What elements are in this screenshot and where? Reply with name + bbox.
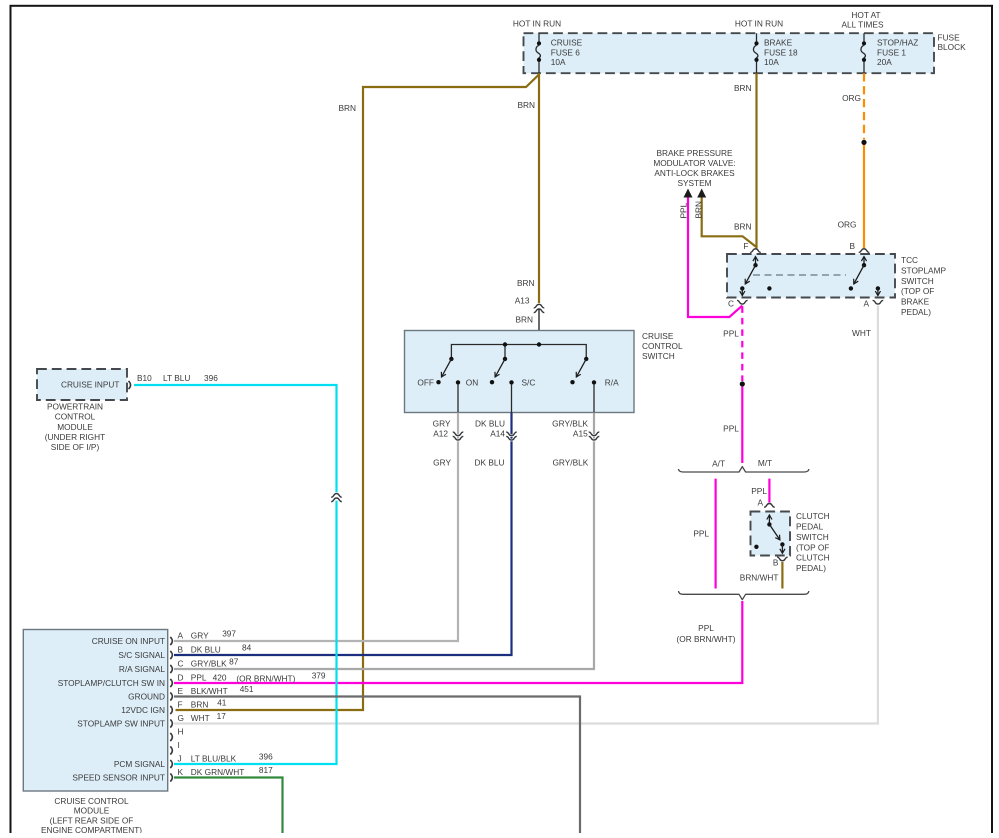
wire PPL (OR BRN/WHT) from brace to module pin D	[174, 601, 742, 683]
svg-text:BRN: BRN	[517, 278, 535, 288]
svg-text:ENGINE COMPARTMENT): ENGINE COMPARTMENT)	[41, 825, 142, 833]
inline connector A12	[433, 429, 463, 440]
wire BRN (black segment) from A13 into cruise control switch	[538, 309, 540, 345]
wire LT BLU from PCM cruise input to module pin J	[134, 385, 337, 764]
wire stub ON contact to box edge	[457, 384, 459, 413]
switch B (arrow stub, pivot, blade)	[849, 257, 867, 291]
svg-text:ALL TIMES: ALL TIMES	[842, 19, 884, 29]
pin B connector (cruise control module)	[118, 645, 183, 661]
svg-text:817: 817	[259, 765, 273, 775]
svg-text:CLUTCH: CLUTCH	[796, 553, 830, 563]
wire BRN fuse18 to TCC stoplamp switch pin F	[755, 73, 757, 248]
svg-text:84: 84	[242, 643, 252, 653]
cruise control switch (box)	[405, 331, 635, 413]
svg-text:BRAKE: BRAKE	[764, 38, 793, 48]
svg-text:A13: A13	[515, 296, 530, 306]
pin B10 connector (PCM)	[129, 381, 131, 389]
pin F connector (TCC)	[743, 241, 760, 252]
junction dot (bus at switch input)	[537, 342, 541, 346]
wire PPL M/T branch to clutch pedal switch pin A	[768, 479, 770, 503]
svg-text:K: K	[178, 767, 184, 777]
svg-text:S/C: S/C	[522, 377, 536, 387]
svg-text:87: 87	[229, 657, 239, 667]
svg-text:(LEFT REAR SIDE OF: (LEFT REAR SIDE OF	[50, 815, 134, 825]
svg-text:HOT IN RUN: HOT IN RUN	[735, 19, 783, 29]
svg-text:PEDAL): PEDAL)	[796, 563, 826, 573]
svg-text:B: B	[773, 558, 779, 568]
svg-text:A12: A12	[433, 429, 448, 439]
label POWERTRAIN CONTROL MODULE (UNDER RIGHT SIDE OF I/P)	[45, 402, 105, 452]
svg-text:SWITCH: SWITCH	[796, 532, 829, 542]
inline connector A14	[490, 429, 517, 440]
svg-text:MODULE: MODULE	[57, 422, 93, 432]
svg-text:20A: 20A	[877, 57, 892, 67]
pin B connector (clutch pedal switch)	[773, 557, 788, 567]
svg-text:STOPLAMP/CLUTCH SW IN: STOPLAMP/CLUTCH SW IN	[58, 678, 165, 688]
svg-text:SPEED SENSOR INPUT: SPEED SENSOR INPUT	[72, 773, 165, 783]
svg-text:379: 379	[312, 670, 326, 680]
wire BRN fuse6 branch to module pin F	[176, 75, 540, 711]
svg-text:A: A	[863, 299, 869, 309]
pin B connector (TCC)	[849, 241, 869, 252]
svg-text:STOP/HAZ: STOP/HAZ	[877, 38, 918, 48]
wire PPL solid to A/T-M/T brace	[741, 387, 743, 463]
svg-text:DK GRN/WHT: DK GRN/WHT	[191, 767, 244, 777]
pin H connector (cruise control module)	[170, 727, 183, 741]
fuse block (box)	[524, 33, 935, 73]
switch A-B (arrow stub, pivot, blade)	[767, 515, 784, 553]
svg-text:GRY/BLK: GRY/BLK	[552, 457, 588, 467]
svg-text:396: 396	[204, 373, 218, 383]
svg-text:MODULE: MODULE	[74, 806, 110, 816]
svg-text:BRN: BRN	[338, 103, 356, 113]
wire labels pin J: LT BLU/BLK 396	[191, 752, 273, 764]
svg-text:BLK/WHT: BLK/WHT	[191, 686, 228, 696]
pin C connector (TCC)	[728, 299, 748, 309]
svg-text:BRN/WHT: BRN/WHT	[740, 573, 779, 583]
cruise control module (box)	[23, 630, 167, 792]
svg-text:A15: A15	[573, 429, 588, 439]
pin D connector (cruise control module)	[58, 673, 184, 689]
svg-text:BRN: BRN	[734, 83, 752, 93]
svg-text:PPL: PPL	[751, 486, 767, 496]
svg-text:PPL: PPL	[723, 423, 739, 433]
svg-text:WHT: WHT	[191, 713, 210, 723]
brace (A/T M/T merge)	[679, 591, 809, 600]
svg-text:DK BLU: DK BLU	[191, 645, 221, 655]
svg-text:420: 420	[213, 673, 227, 683]
pin A connector (TCC)	[863, 299, 883, 309]
svg-text:BLOCK: BLOCK	[938, 42, 967, 52]
wire labels pin C: GRY/BLK 87	[191, 657, 239, 669]
wire labels pin K: DK GRN/WHT 817	[191, 765, 273, 777]
svg-text:10A: 10A	[764, 57, 779, 67]
contact dot (R/A blade rest)	[570, 380, 574, 384]
svg-text:ORG: ORG	[838, 220, 857, 230]
svg-text:CONTROL: CONTROL	[55, 412, 96, 422]
svg-text:(OR BRN/WHT): (OR BRN/WHT)	[236, 673, 295, 683]
arrowhead PPL to modulator valve	[684, 189, 693, 198]
svg-text:ON: ON	[466, 377, 478, 387]
wire WHT from TCC pin A to module pin G	[174, 306, 878, 724]
svg-text:OFF: OFF	[417, 377, 434, 387]
svg-text:MODULATOR VALVE:: MODULATOR VALVE:	[653, 158, 735, 168]
svg-text:CRUISE ON INPUT: CRUISE ON INPUT	[92, 636, 165, 646]
switch F-C (arrow stub, pivot, blade)	[740, 257, 758, 296]
svg-text:CRUISE: CRUISE	[642, 331, 674, 341]
TCC stoplamp switch (box)	[727, 254, 895, 298]
wire labels pin G: WHT 17	[191, 711, 226, 723]
svg-text:F: F	[178, 700, 183, 710]
wire labels pin B: DK BLU 84	[191, 643, 252, 655]
contact A with arrow stub (TCC)	[876, 286, 880, 295]
fuse STOP/HAZ FUSE 1 20A	[861, 33, 918, 73]
wire GRY from ON contact to module pin A	[174, 413, 458, 642]
svg-text:PEDAL): PEDAL)	[901, 307, 931, 317]
svg-text:BRAKE PRESSURE: BRAKE PRESSURE	[656, 148, 733, 158]
svg-text:WHT: WHT	[852, 328, 871, 338]
svg-text:BRN: BRN	[734, 222, 752, 232]
label CRUISE CONTROL MODULE (LEFT REAR SIDE OF ENGINE COMPARTMENT)	[41, 796, 142, 835]
svg-text:(TOP OF: (TOP OF	[796, 542, 829, 552]
pin I connector (cruise control module)	[170, 740, 180, 754]
svg-text:SWITCH: SWITCH	[642, 351, 675, 361]
junction dot on PPL wire	[740, 381, 745, 386]
svg-text:C: C	[728, 299, 734, 309]
inline connector A13	[515, 296, 545, 313]
svg-text:PPL: PPL	[679, 202, 689, 218]
arrowhead BRN to modulator valve	[697, 189, 706, 198]
wire internal bus of cruise control switch	[451, 345, 586, 359]
svg-text:POWERTRAIN: POWERTRAIN	[47, 402, 103, 412]
svg-text:B10: B10	[137, 373, 152, 383]
switch blade OFF/ON (pivot and blade)	[449, 357, 453, 361]
svg-text:M/T: M/T	[758, 458, 772, 468]
wire GRY/BLK from R/A contact to module pin C	[174, 413, 594, 670]
svg-text:J: J	[178, 754, 182, 764]
svg-text:ORG: ORG	[842, 93, 861, 103]
svg-text:GRY: GRY	[433, 457, 451, 467]
brace (A/T M/T split)	[679, 467, 809, 472]
svg-text:PCM SIGNAL: PCM SIGNAL	[114, 759, 166, 769]
svg-text:GRY/BLK: GRY/BLK	[552, 418, 588, 428]
pin A connector (clutch pedal switch)	[757, 498, 774, 508]
svg-text:PPL: PPL	[698, 623, 714, 633]
inline connector on LT BLU wire	[331, 493, 342, 502]
svg-text:E: E	[178, 686, 184, 696]
svg-text:GROUND: GROUND	[128, 692, 165, 702]
contact dot (S/C blade rest)	[490, 380, 494, 384]
clutch pedal switch (box)	[751, 512, 791, 556]
svg-text:SWITCH: SWITCH	[901, 276, 934, 286]
junction dot (bus at middle switch)	[503, 342, 507, 346]
pin G connector (cruise control module)	[77, 713, 184, 729]
svg-text:SYSTEM: SYSTEM	[677, 178, 711, 188]
pin A connector (cruise control module)	[92, 631, 184, 647]
wire DK BLU from S/C contact to module pin B	[174, 413, 512, 656]
svg-text:451: 451	[240, 684, 254, 694]
svg-text:41: 41	[217, 698, 227, 708]
switch blade R/A (pivot and blade)	[584, 357, 588, 361]
svg-text:BRN: BRN	[515, 315, 533, 325]
wire ORG solid to TCC pin B	[863, 145, 865, 249]
svg-text:G: G	[178, 713, 184, 723]
label PPL (OR BRN/WHT)	[677, 623, 736, 644]
pin E connector (cruise control module)	[128, 686, 183, 702]
cruise input box (powertrain control module)	[37, 369, 127, 400]
svg-text:GRY/BLK: GRY/BLK	[191, 659, 227, 669]
svg-text:R/A SIGNAL: R/A SIGNAL	[119, 664, 165, 674]
pin F connector (cruise control module)	[121, 700, 182, 716]
svg-text:A14: A14	[490, 429, 505, 439]
svg-text:B: B	[178, 645, 184, 655]
pin K connector (cruise control module)	[72, 767, 183, 783]
svg-text:LT BLU/BLK: LT BLU/BLK	[191, 754, 237, 764]
fuse CRUISE FUSE 6 10A	[536, 33, 583, 73]
svg-text:BRN: BRN	[517, 100, 535, 110]
svg-text:ANTI-LOCK BRAKES: ANTI-LOCK BRAKES	[654, 168, 735, 178]
contact ON (dot)	[456, 380, 460, 384]
svg-text:CONTROL: CONTROL	[642, 341, 683, 351]
svg-text:BRAKE: BRAKE	[901, 297, 930, 307]
svg-text:PPL: PPL	[191, 673, 207, 683]
svg-text:STOPLAMP SW INPUT: STOPLAMP SW INPUT	[77, 719, 165, 729]
contact R/A (dot)	[592, 380, 596, 384]
contact dot (TCC left spare)	[767, 286, 771, 290]
svg-text:STOPLAMP: STOPLAMP	[901, 265, 946, 275]
svg-text:A: A	[757, 498, 763, 508]
label BRAKE PRESSURE MODULATOR VALVE: ANTI-LOCK BRAKES SYSTEM	[653, 148, 735, 188]
svg-text:PPL: PPL	[723, 328, 739, 338]
svg-text:HOT AT: HOT AT	[851, 10, 880, 20]
svg-text:CRUISE CONTROL: CRUISE CONTROL	[54, 796, 129, 806]
svg-text:S/C SIGNAL: S/C SIGNAL	[118, 650, 165, 660]
svg-text:D: D	[178, 673, 184, 683]
wire E BLK/WHT to ground (down off page)	[174, 697, 580, 838]
svg-text:A: A	[178, 631, 184, 641]
svg-text:(OR BRN/WHT): (OR BRN/WHT)	[677, 634, 736, 644]
wire BRN fuse6 to A13 connector (vertical)	[538, 73, 540, 303]
svg-text:C: C	[178, 659, 184, 669]
svg-text:BRN: BRN	[191, 700, 209, 710]
pin J connector (cruise control module)	[114, 754, 182, 770]
svg-text:I: I	[178, 740, 180, 750]
svg-text:PPL: PPL	[693, 529, 709, 539]
svg-text:CRUISE INPUT: CRUISE INPUT	[61, 379, 120, 389]
svg-text:(UNDER RIGHT: (UNDER RIGHT	[45, 432, 105, 442]
svg-text:LT BLU: LT BLU	[163, 373, 190, 383]
wire labels pin D: PPL 420 (OR BRN/WHT) 379	[191, 670, 326, 683]
svg-text:396: 396	[259, 752, 273, 762]
svg-text:17: 17	[217, 711, 227, 721]
contact OFF (dot)	[436, 380, 440, 384]
svg-text:HOT IN RUN: HOT IN RUN	[513, 19, 561, 29]
wire PPL A/T branch	[714, 479, 716, 589]
fuse BRAKE FUSE 18 10A	[753, 33, 798, 73]
svg-text:GRY: GRY	[191, 631, 209, 641]
switch blade S/C (pivot and blade)	[503, 357, 507, 361]
svg-text:R/A: R/A	[605, 377, 619, 387]
svg-text:12VDC IGN: 12VDC IGN	[121, 705, 165, 715]
wire PPL dashed from TCC pin C	[741, 306, 743, 381]
svg-text:10A: 10A	[551, 57, 566, 67]
svg-text:FUSE: FUSE	[938, 33, 961, 43]
mechanical link (dashed) between TCC switches	[753, 274, 846, 276]
svg-text:SIDE OF I/P): SIDE OF I/P)	[51, 442, 100, 452]
contact S/C (dot)	[509, 380, 513, 384]
svg-text:DK BLU: DK BLU	[475, 457, 505, 467]
svg-text:GRY: GRY	[433, 418, 451, 428]
wire K DK GRN/WHT to speed sensor (down off page)	[174, 778, 283, 838]
wire labels pin E: BLK/WHT 451	[191, 684, 254, 696]
inline connector A15	[573, 429, 599, 440]
svg-text:F: F	[743, 241, 748, 251]
wire stub R/A contact to box edge	[593, 384, 595, 413]
wire PPL to brake pressure modulator valve from TCC pin C	[688, 197, 742, 317]
svg-text:DK BLU: DK BLU	[475, 418, 505, 428]
junction dot on ORG wire	[861, 140, 866, 145]
wire labels pin F: BRN 41	[191, 698, 227, 710]
svg-text:BRN: BRN	[693, 201, 703, 219]
svg-text:CRUISE: CRUISE	[551, 38, 583, 48]
wire BRN/WHT from clutch switch pin B	[781, 562, 783, 589]
svg-text:TCC: TCC	[901, 255, 918, 265]
contact dot (clutch switch spare)	[754, 545, 758, 549]
wire ORG dashed from stop/haz fuse	[863, 73, 865, 139]
svg-text:(TOP OF: (TOP OF	[901, 286, 934, 296]
svg-text:B: B	[849, 241, 855, 251]
wire BRN branch to brake pressure modulator valve	[702, 197, 756, 247]
svg-text:397: 397	[222, 629, 236, 639]
svg-text:PEDAL: PEDAL	[796, 521, 824, 531]
wire stub S/C contact to box edge	[511, 384, 513, 413]
pin C connector (cruise control module)	[119, 659, 184, 675]
svg-text:A/T: A/T	[712, 459, 725, 469]
svg-text:CLUTCH: CLUTCH	[796, 511, 830, 521]
svg-text:H: H	[178, 727, 184, 737]
wire labels pin A: GRY 397	[191, 629, 237, 641]
